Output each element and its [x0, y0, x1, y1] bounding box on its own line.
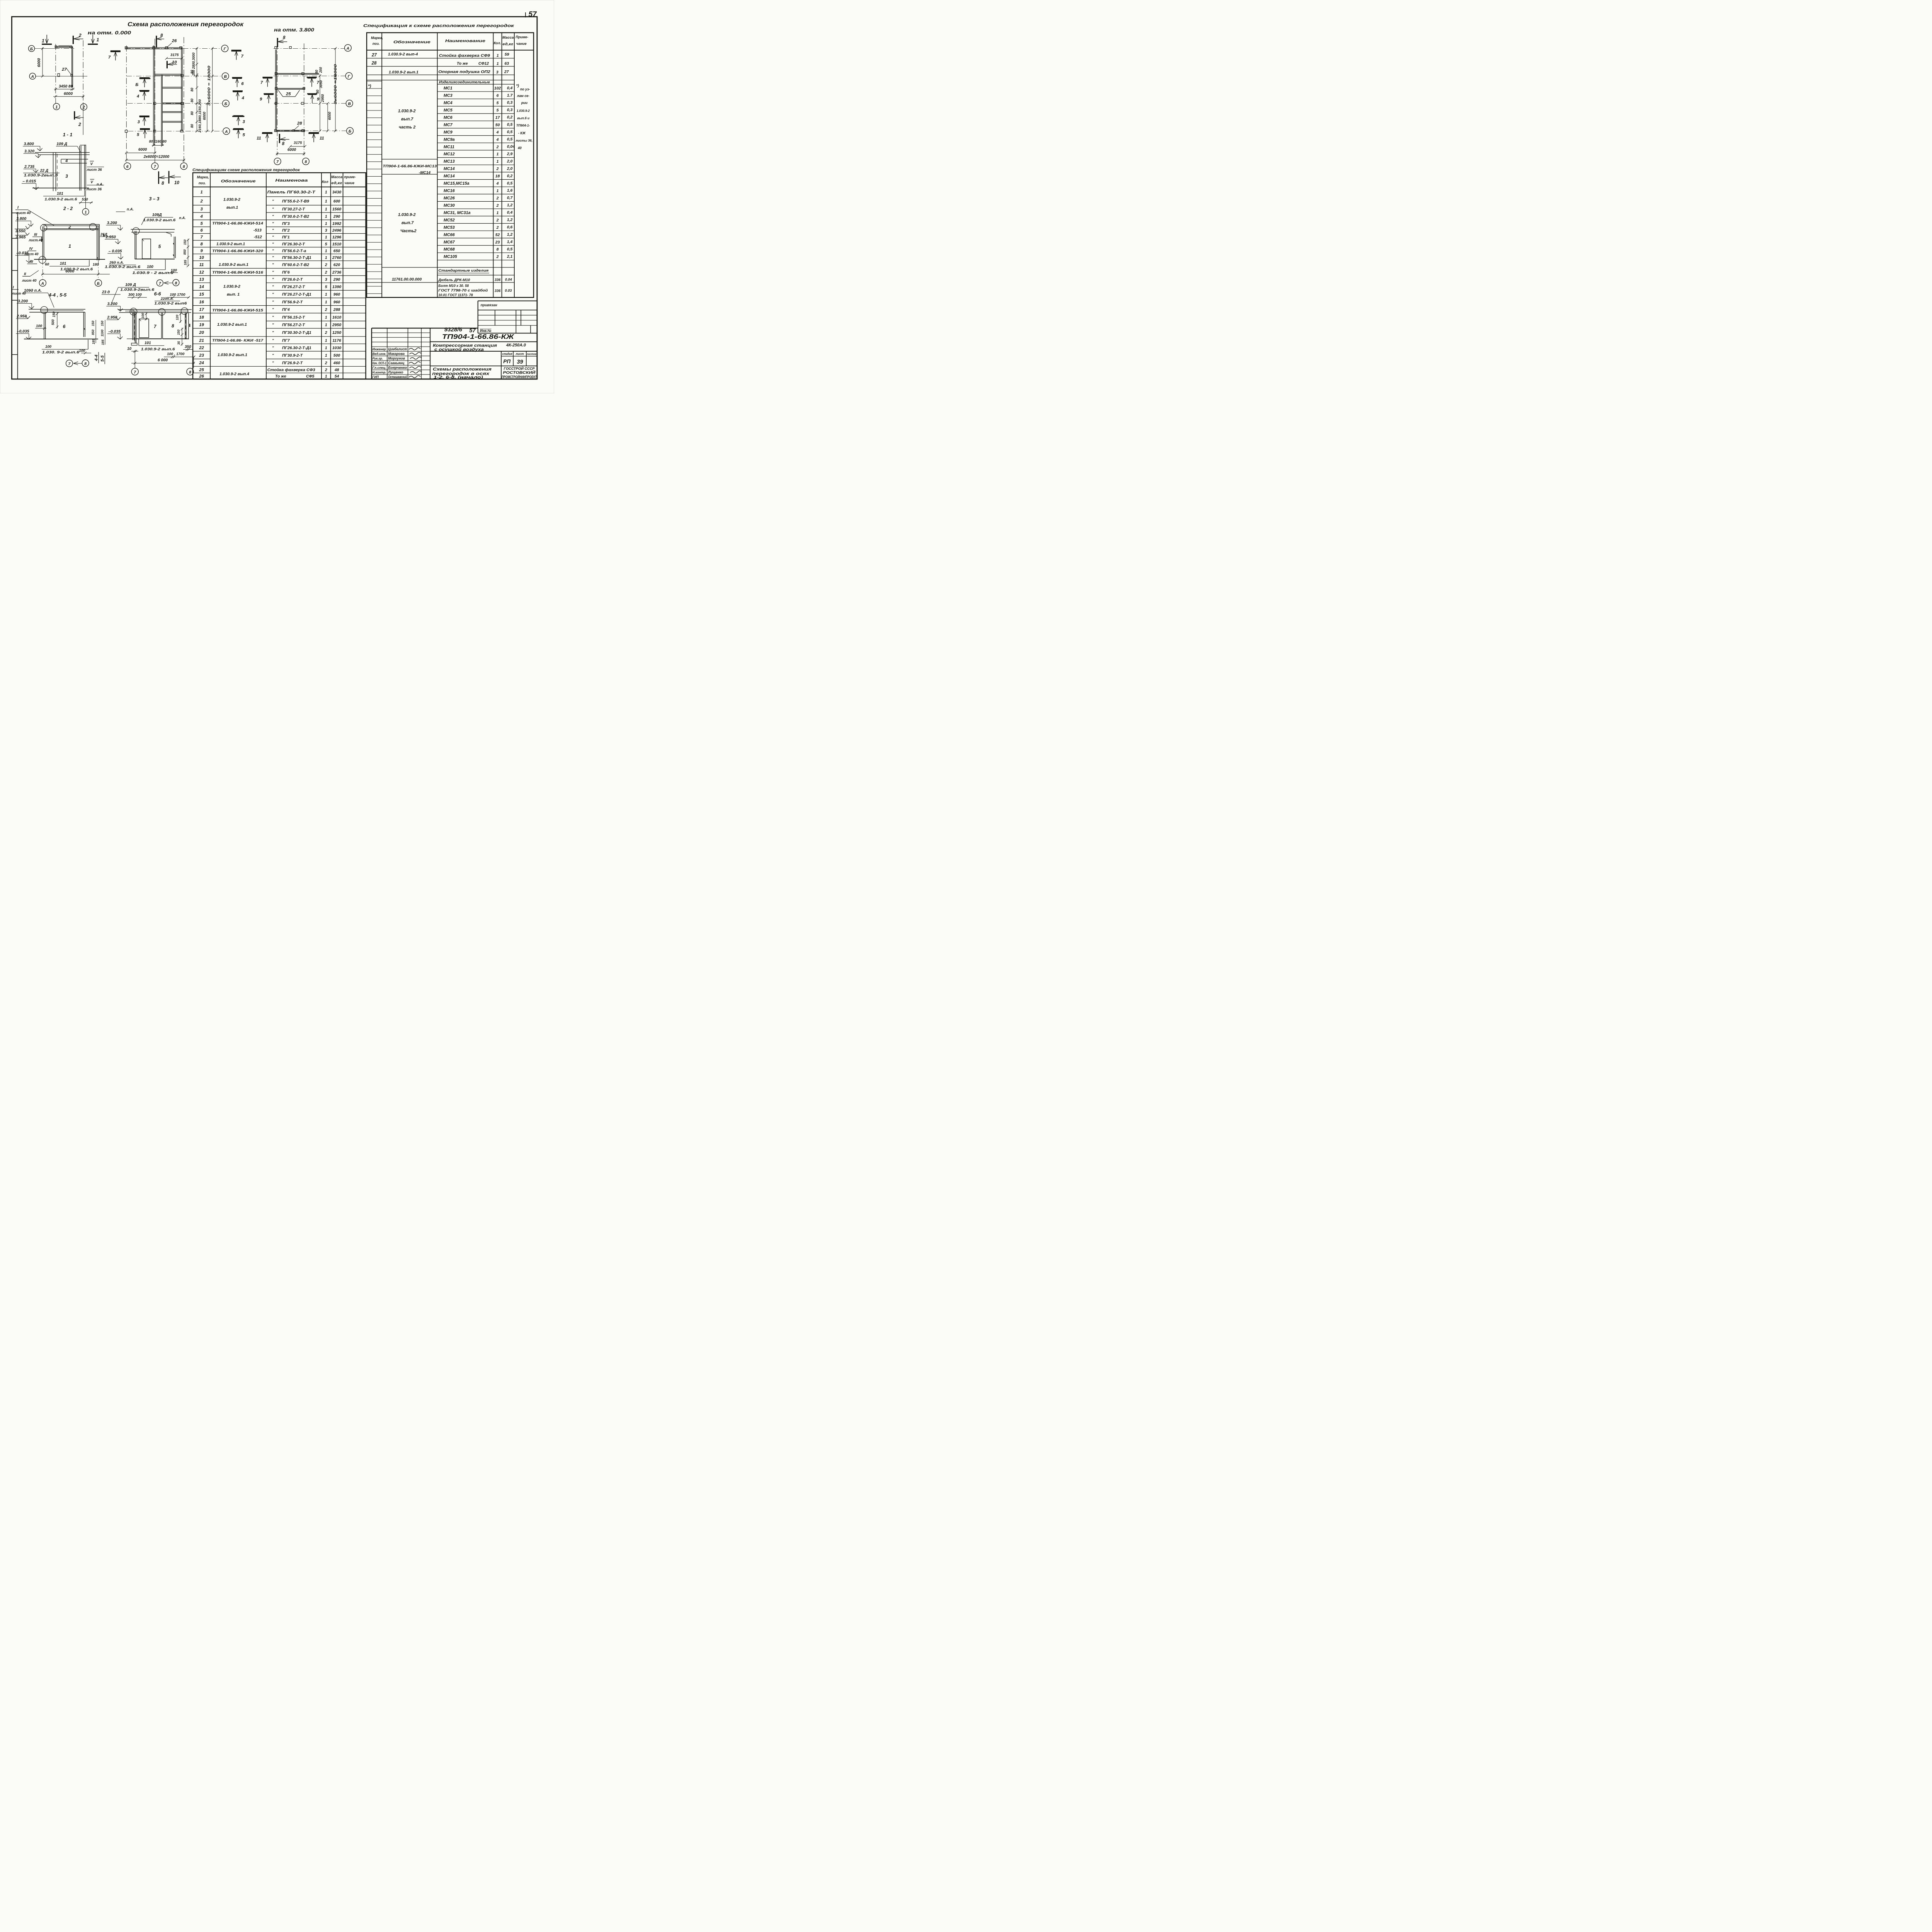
svg-text:1: 1 [497, 211, 499, 215]
left plan: axis A circle [29, 73, 36, 79]
svg-text:рии: рии [521, 101, 528, 105]
left plan: grid line 1 [55, 44, 57, 101]
svg-text:–0.035: –0.035 [108, 330, 121, 334]
svg-text:27: 27 [371, 53, 377, 58]
bottom spec table grid [193, 173, 366, 379]
svg-text:чание: чание [345, 181, 355, 185]
svg-text:23 д: 23 д [102, 290, 110, 294]
svg-text:6000: 6000 [328, 112, 332, 120]
svg-text:МС3: МС3 [444, 94, 452, 98]
center plan: left flag 5 [140, 126, 150, 133]
svg-text:1,2: 1,2 [507, 233, 513, 237]
section 3-3: ceiling [131, 228, 175, 231]
section 4-4: right dim col 2 [104, 320, 106, 345]
svg-text:80: 80 [190, 70, 194, 74]
svg-text:2950: 2950 [332, 323, 341, 327]
svg-text:100: 100 [147, 265, 153, 269]
svg-text:18: 18 [199, 315, 204, 320]
section 4-4: detail circle [41, 306, 48, 313]
svg-text:7: 7 [154, 165, 156, 169]
svg-text:": " [272, 222, 274, 226]
svg-text:101: 101 [57, 192, 63, 196]
svg-text:ПГ26.6-2-Т: ПГ26.6-2-Т [282, 278, 303, 282]
svg-text:Боярченко: Боярченко [388, 366, 407, 369]
svg-text:28: 28 [371, 61, 377, 66]
section 2-2: left wall [41, 226, 44, 260]
center plan: axis circle B [223, 100, 230, 107]
svg-text:Кол.: Кол. [494, 41, 501, 45]
svg-text:": " [272, 316, 274, 320]
svg-text:8: 8 [282, 141, 285, 146]
svg-text:": " [272, 263, 274, 267]
svg-text:5: 5 [497, 101, 499, 105]
section 4-4: floor [24, 337, 98, 341]
svg-text:960: 960 [333, 300, 340, 304]
section 6-6: floors [136, 337, 162, 340]
svg-text:25: 25 [286, 92, 291, 96]
right plan: right flag 9 [308, 91, 316, 97]
svg-text:80: 80 [190, 111, 194, 115]
svg-text:": " [272, 323, 274, 327]
svg-text:10: 10 [174, 180, 179, 185]
svg-text:1: 1 [325, 222, 327, 226]
svg-text:3175: 3175 [170, 53, 179, 57]
svg-text:листы 36,: листы 36, [515, 139, 532, 143]
svg-text:6: 6 [497, 94, 499, 98]
svg-text:50: 50 [495, 123, 500, 127]
svg-text:10: 10 [172, 60, 177, 65]
svg-text:1,6: 1,6 [507, 189, 513, 193]
right plan: flag 8 bottom [276, 134, 282, 143]
svg-text:3.200: 3.200 [107, 221, 117, 225]
section 4-4: ceiling [29, 308, 85, 311]
svg-text:101: 101 [145, 341, 151, 345]
svg-text:2: 2 [200, 199, 203, 204]
svg-text:11761.00.00.000: 11761.00.00.000 [392, 277, 422, 282]
svg-text:ПГ30.30-2-Т-Д1: ПГ30.30-2-Т-Д1 [282, 331, 311, 335]
svg-text:Б: Б [135, 82, 138, 87]
svg-text:ПГ56.27-2-Т: ПГ56.27-2-Т [282, 323, 306, 327]
svg-text:на отм. 0.000: на отм. 0.000 [88, 30, 131, 36]
svg-text:1: 1 [325, 190, 327, 194]
svg-text:3175: 3175 [294, 141, 302, 145]
center plan: axis circle V [222, 73, 229, 80]
svg-text:1: 1 [325, 316, 327, 320]
svg-text:2: 2 [78, 122, 81, 127]
svg-text:вып. 1: вып. 1 [227, 293, 240, 297]
svg-text:8: 8 [183, 165, 185, 169]
center plan: bottom axis circle 7 [151, 163, 158, 170]
inv number row [478, 331, 537, 335]
svg-text:7: 7 [200, 235, 203, 240]
svg-text:150: 150 [183, 240, 187, 245]
svg-text:200: 200 [319, 67, 323, 73]
svg-text:500: 500 [333, 354, 340, 358]
svg-text:2: 2 [325, 308, 327, 312]
svg-text:2.950: 2.950 [107, 315, 117, 320]
svg-text:по уз-: по уз- [520, 87, 530, 91]
svg-text:0,4: 0,4 [507, 86, 513, 90]
svg-text:IV: IV [29, 247, 34, 251]
right plan: dim 6000 vertical [327, 104, 329, 131]
center plan: left flag 4 [140, 88, 149, 94]
svg-text:7: 7 [154, 324, 156, 329]
svg-text:2: 2 [325, 263, 327, 267]
svg-text:Осташевский: Осташевский [388, 375, 407, 379]
svg-text:1.030.9-2: 1.030.9-2 [398, 109, 416, 113]
svg-text:чание: чание [516, 42, 527, 46]
svg-text:ТП904-1-66.86-КЖИ-320: ТП904-1-66.86-КЖИ-320 [212, 249, 264, 253]
section 4-4: right wall [82, 312, 85, 337]
svg-text:6 000: 6 000 [158, 358, 168, 362]
svg-text:2: 2 [496, 226, 499, 230]
svg-text:0,3: 0,3 [507, 108, 513, 112]
svg-text:1.030.9-2 вып.1: 1.030.9-2 вып.1 [217, 323, 247, 327]
center plan: axis A line [128, 130, 223, 132]
svg-text:24: 24 [199, 361, 204, 366]
center plan: axis V line [126, 75, 221, 77]
svg-text:1.030.9-2: 1.030.9-2 [517, 109, 530, 113]
svg-text:ТП904-1-66.86-КЖИ-516: ТП904-1-66.86-КЖИ-516 [212, 270, 264, 275]
svg-text:2: 2 [325, 368, 327, 372]
svg-text:6000: 6000 [37, 58, 41, 67]
svg-text:МС14: МС14 [444, 167, 455, 171]
svg-text:20: 20 [199, 330, 204, 335]
svg-text:Часть2: Часть2 [400, 229, 417, 233]
svg-text:15: 15 [199, 292, 204, 297]
section 2-2: axis circle A [42, 260, 43, 279]
svg-text:1: 1 [325, 293, 327, 297]
svg-text:А: А [31, 75, 34, 79]
svg-text:3050: 3050 [319, 80, 323, 88]
svg-text:ПГ56.30-2-Т-Д1: ПГ56.30-2-Т-Д1 [282, 256, 311, 260]
svg-text:": " [272, 235, 274, 240]
svg-text:59: 59 [505, 53, 509, 57]
svg-text:22: 22 [199, 345, 204, 350]
svg-text:2,1: 2,1 [507, 255, 513, 259]
svg-text:Б: Б [30, 47, 33, 51]
svg-text:0,04: 0,04 [507, 145, 515, 149]
svg-text:1: 1 [325, 256, 327, 260]
svg-text:лист 36: лист 36 [87, 168, 102, 172]
svg-text:9: 9 [317, 97, 320, 102]
svg-text:ПГ4: ПГ4 [282, 308, 290, 312]
svg-text:Лущенко: Лущенко [388, 370, 403, 374]
center plan: grid 8 vertical [183, 37, 185, 163]
svg-text:8: 8 [283, 35, 286, 40]
svg-text:5: 5 [497, 108, 499, 112]
svg-text:": " [272, 278, 274, 282]
svg-text:МС6: МС6 [444, 115, 453, 120]
svg-text:0,4: 0,4 [507, 211, 513, 215]
right plan: wall along B [277, 129, 305, 132]
svg-text:МС52: МС52 [444, 218, 455, 223]
svg-text:Изделиясоединительные: Изделиясоединительные [439, 80, 490, 84]
svg-text:2496: 2496 [332, 229, 341, 233]
svg-text:ТП904-1-66.86-КЖ: ТП904-1-66.86-КЖ [442, 333, 515, 340]
section 3-3: right wall [173, 236, 175, 258]
svg-text:620: 620 [333, 263, 340, 267]
section 2-2: detail circle left-mid [39, 256, 46, 263]
section 3-3: floor [135, 257, 174, 261]
svg-text:1: 1 [85, 210, 87, 214]
svg-text:п.А.: п.А. [179, 216, 185, 220]
left margin filing boxes [16, 213, 19, 379]
section 6-6: detail circles [130, 308, 137, 315]
right plan: right flag 11 [308, 130, 319, 136]
svg-text:1.030. 9-2 вып.6: 1.030. 9-2 вып.6 [42, 350, 80, 354]
svg-text:ПГ7: ПГ7 [282, 338, 290, 343]
svg-text:2: 2 [496, 204, 499, 208]
svg-text:Марка,: Марка, [371, 36, 383, 40]
right plan: axis circle V [346, 100, 353, 107]
svg-text:Б: Б [349, 129, 351, 134]
svg-text:500: 500 [51, 320, 55, 325]
svg-text:ПГ56.15-2-Т: ПГ56.15-2-Т [282, 316, 306, 320]
right plan: grid 8 vertical [303, 43, 305, 155]
right plan: wall y1150 [277, 87, 305, 90]
svg-text:": " [272, 207, 274, 212]
right spec table grid [367, 33, 534, 298]
svg-text:поз.: поз. [199, 181, 206, 185]
svg-text:460: 460 [333, 361, 340, 366]
svg-text:1: 1 [325, 215, 327, 219]
svg-text:80: 80 [190, 88, 194, 92]
svg-text:3: 3 [496, 70, 498, 75]
center plan: axis circle G [221, 45, 228, 52]
svg-text:10.01 ГОСТ 11371- 78: 10.01 ГОСТ 11371- 78 [438, 293, 473, 297]
left plan: section mark 1 top [46, 35, 48, 43]
section 4-4: circle 7 [66, 360, 73, 367]
svg-text:3430: 3430 [332, 190, 341, 194]
svg-text:17: 17 [199, 308, 204, 312]
svg-text:2: 2 [496, 255, 499, 259]
svg-text:1-2, 6-8. (начало): 1-2, 6-8. (начало) [434, 376, 483, 380]
svg-text:вып.7: вып.7 [401, 117, 413, 122]
svg-text:лист 40: лист 40 [16, 211, 31, 215]
svg-text:лист 36: лист 36 [86, 187, 102, 191]
svg-text:ГОСТ 7798-70 с шайбой: ГОСТ 7798-70 с шайбой [438, 288, 488, 292]
svg-text:288: 288 [333, 308, 340, 312]
svg-text:ПГ56.6-2-Т-а: ПГ56.6-2-Т-а [282, 249, 306, 253]
svg-text:": " [272, 285, 274, 289]
svg-text:1: 1 [497, 62, 499, 66]
svg-text:МС5: МС5 [444, 108, 453, 112]
section 4-4: right dim col 1 [95, 320, 97, 343]
svg-text:1176: 1176 [332, 338, 341, 343]
svg-text:ПГ1: ПГ1 [282, 235, 290, 240]
svg-text:МС105: МС105 [444, 255, 457, 259]
section 2-2: detail circle top-left [41, 224, 47, 231]
svg-text:100: 100 [141, 313, 145, 318]
svg-text:-513: -513 [253, 228, 262, 233]
right plan: axis G line [274, 75, 345, 77]
svg-text:А: А [224, 130, 228, 134]
svg-text:120: 120 [175, 315, 179, 320]
svg-text:0,5: 0,5 [507, 123, 513, 127]
center plan: wall y1135 [162, 86, 182, 88]
section 6-6: door room7 [139, 319, 149, 337]
center plan: axis G line [126, 48, 221, 49]
svg-text:часть 2: часть 2 [399, 125, 415, 129]
left plan: section mark 2 bottom [71, 111, 78, 120]
svg-text:РП: РП [503, 359, 511, 364]
svg-text:": " [272, 346, 274, 350]
svg-text:8: 8 [497, 248, 499, 252]
svg-text:ед,кг: ед,кг [331, 181, 342, 185]
svg-text:1.030.9-2 вып-4: 1.030.9-2 вып-4 [388, 53, 418, 57]
left plan: section mark 1 right [92, 35, 94, 43]
svg-text:Стойка фахверка СФ9: Стойка фахверка СФ9 [439, 53, 490, 58]
svg-text:V: V [90, 180, 94, 184]
svg-text:на отм. 3.800: на отм. 3.800 [274, 27, 315, 33]
svg-text:III: III [30, 260, 33, 264]
svg-text:12: 12 [199, 270, 204, 275]
center plan: axis circle A [223, 128, 230, 135]
svg-text:Панель ПГ60.30-2-Т: Панель ПГ60.30-2-Т [267, 190, 316, 194]
svg-text:6000: 6000 [65, 269, 74, 274]
svg-text:57: 57 [529, 10, 537, 19]
svg-text:РОСТОВСКИЙ: РОСТОВСКИЙ [503, 370, 536, 375]
svg-text:3.200: 3.200 [107, 302, 117, 306]
center plan: left flag B [139, 75, 150, 82]
svg-text:3.800: 3.800 [24, 142, 34, 146]
svg-text:Б: Б [224, 102, 227, 106]
svg-text:185: 185 [101, 340, 105, 345]
svg-text:1560: 1560 [332, 207, 341, 212]
svg-text:1: 1 [68, 243, 71, 249]
svg-text:150: 150 [177, 330, 180, 335]
svg-text:Нач. ОСП-1: Нач. ОСП-1 [372, 361, 386, 365]
center plan: top wall along G [126, 46, 182, 49]
svg-text:8: 8 [189, 370, 191, 374]
svg-text:ТП904-1-66.86-КЖИ-514: ТП904-1-66.86-КЖИ-514 [212, 221, 264, 226]
section 3-3: left wall [134, 231, 136, 259]
svg-text:185: 185 [92, 339, 95, 344]
section 2-2: top beam 2 [43, 223, 99, 226]
svg-text:2736: 2736 [332, 270, 341, 275]
svg-text:3к6000 =18000: 3к6000 =18000 [333, 64, 338, 104]
svg-text:ГОССТРОЙ СССР: ГОССТРОЙ СССР [504, 366, 535, 371]
svg-text:960: 960 [333, 293, 340, 297]
section 6-6: ceiling [119, 308, 192, 311]
svg-text:2.950: 2.950 [105, 235, 116, 239]
svg-text:3450 80: 3450 80 [59, 84, 73, 88]
title block doc number [430, 340, 537, 344]
svg-text:530: 530 [82, 197, 88, 202]
svg-text:ПГ30.6-2-Т-В2: ПГ30.6-2-Т-В2 [282, 215, 309, 219]
svg-text:2,9: 2,9 [507, 152, 513, 156]
svg-text:1.030.9 - 2 вып.6: 1.030.9 - 2 вып.6 [132, 271, 173, 275]
svg-text:27: 27 [61, 67, 67, 72]
svg-text:0.03: 0.03 [505, 289, 512, 293]
svg-text:Цимбалист: Цимбалист [388, 347, 407, 351]
svg-text:3: 3 [325, 229, 327, 233]
svg-text:109 Д: 109 Д [125, 283, 136, 287]
svg-text:Компрессорная станция: Компрессорная станция [433, 344, 497, 348]
svg-text:": " [272, 270, 274, 275]
svg-text:1030: 1030 [332, 346, 341, 350]
svg-text:МС67: МС67 [444, 240, 455, 245]
right plan: squares on V axis [275, 102, 277, 105]
svg-text:5: 5 [158, 244, 161, 249]
page number 157 [524, 12, 527, 17]
svg-text:привязан: привязан [481, 303, 497, 307]
svg-text:1610: 1610 [332, 316, 341, 320]
svg-text:–0,035: –0,035 [17, 329, 29, 333]
svg-text:2: 2 [496, 145, 499, 149]
svg-text:ПГ55.6-2-Т-В9: ПГ55.6-2-Т-В9 [282, 199, 309, 204]
svg-text:Масса: Масса [502, 36, 514, 39]
svg-text:7: 7 [159, 282, 162, 286]
svg-text:0,5: 0,5 [507, 138, 513, 142]
svg-text:40: 40 [517, 146, 522, 150]
svg-text:80: 80 [190, 124, 194, 128]
svg-text:ГИП: ГИП [372, 375, 379, 379]
svg-text:4: 4 [241, 96, 245, 100]
svg-text:0,5: 0,5 [507, 247, 513, 252]
svg-text:1.030.9-2 вып.6: 1.030.9-2 вып.6 [143, 218, 176, 222]
svg-text:290: 290 [333, 278, 340, 282]
center plan: left section mark 7 [111, 48, 121, 54]
svg-text:– 0.015: – 0.015 [22, 179, 36, 184]
svg-text:150: 150 [52, 311, 56, 317]
svg-text:Гл.спец.: Гл.спец. [372, 366, 386, 369]
svg-text:МС12: МС12 [444, 152, 455, 156]
svg-text:9328/6: 9328/6 [444, 327, 463, 333]
section 2-2: detail circle top-right [90, 223, 97, 230]
svg-text:ПГ6: ПГ6 [282, 270, 290, 275]
svg-text:7: 7 [108, 55, 111, 60]
right plan: bottom axis circle 7 [274, 158, 281, 165]
svg-text:26: 26 [199, 374, 204, 379]
svg-text:336: 336 [495, 278, 501, 282]
svg-text:1992: 1992 [332, 222, 341, 226]
svg-text:лист.40: лист.40 [28, 238, 43, 242]
svg-text:п.А.: п.А. [97, 182, 103, 186]
svg-text:вып.6 и: вып.6 и [517, 116, 529, 120]
svg-text:3.800: 3.800 [16, 217, 26, 221]
svg-text:лист 40: лист 40 [22, 279, 37, 282]
svg-text:*): *) [368, 84, 371, 88]
svg-text:Инженер: Инженер [372, 347, 386, 351]
svg-text:ПГ26.30-2-Т: ПГ26.30-2-Т [282, 242, 306, 247]
svg-text:5: 5 [325, 242, 327, 247]
svg-text:стадия: стадия [502, 352, 512, 355]
svg-text:6-6: 6-6 [154, 291, 161, 296]
svg-text:1.030.9-2: 1.030.9-2 [223, 198, 240, 202]
svg-text:": " [272, 242, 274, 247]
svg-text:I: I [17, 206, 19, 210]
svg-text:МС14: МС14 [444, 174, 455, 179]
svg-text:ПГ30.27-2-Т: ПГ30.27-2-Т [282, 207, 306, 212]
center plan: right flag 4 [233, 88, 243, 95]
svg-text:3: 3 [65, 174, 68, 179]
svg-text:2: 2 [496, 218, 499, 223]
svg-text:0,5: 0,5 [507, 181, 513, 185]
svg-text:7: 7 [134, 370, 136, 374]
svg-text:1: 1 [55, 105, 58, 109]
svg-text:3: 3 [243, 119, 245, 124]
svg-text:21: 21 [199, 338, 204, 343]
svg-text:1.030.9-2 вып.6: 1.030.9-2 вып.6 [141, 347, 175, 351]
svg-text:ТП904-1-66.86-КЖИ-515: ТП904-1-66.86-КЖИ-515 [212, 308, 264, 313]
svg-text:3х6000 = 18000: 3х6000 = 18000 [207, 65, 211, 106]
svg-text:3 – 3: 3 – 3 [149, 196, 160, 201]
svg-text:0.04: 0.04 [505, 277, 512, 281]
svg-text:ТП904-1-66.86- КЖИ -517: ТП904-1-66.86- КЖИ -517 [212, 338, 264, 343]
center plan: right dim chain 1 [196, 48, 198, 131]
